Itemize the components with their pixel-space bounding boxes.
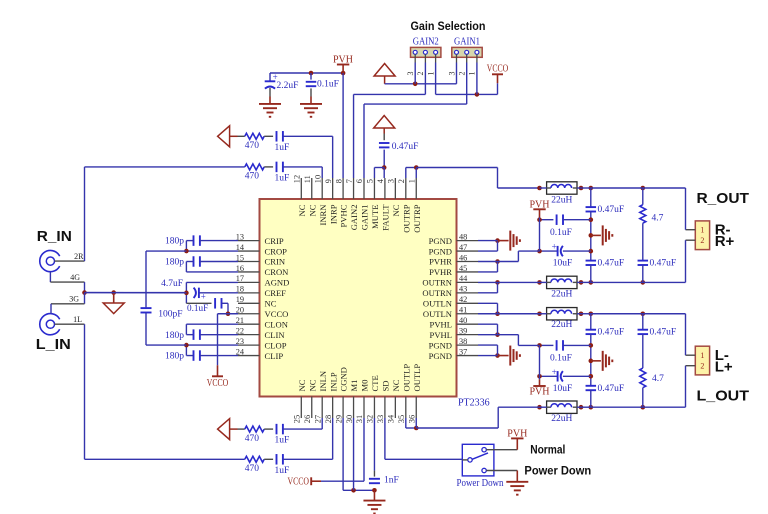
- svg-text:M0: M0: [360, 380, 370, 392]
- svg-text:0.1uF: 0.1uF: [550, 354, 572, 364]
- svg-text:34: 34: [387, 414, 396, 423]
- svg-text:Gain Selection: Gain Selection: [411, 19, 486, 33]
- svg-text:180p: 180p: [165, 237, 184, 247]
- svg-text:CLON: CLON: [265, 319, 289, 329]
- svg-text:39: 39: [459, 326, 467, 335]
- svg-text:28: 28: [324, 415, 333, 423]
- svg-text:47: 47: [459, 243, 467, 252]
- svg-text:L+: L+: [715, 358, 733, 375]
- svg-text:12: 12: [293, 175, 302, 183]
- svg-text:4.7uF: 4.7uF: [161, 279, 183, 289]
- svg-text:OUTLP: OUTLP: [412, 364, 422, 392]
- svg-text:11: 11: [303, 175, 312, 183]
- svg-text:180p: 180p: [165, 331, 184, 341]
- svg-text:OUTLP: OUTLP: [401, 364, 411, 392]
- svg-text:CLIN: CLIN: [265, 330, 286, 340]
- svg-text:PVHC: PVHC: [339, 204, 349, 227]
- svg-text:41: 41: [459, 306, 467, 315]
- svg-text:Power Down: Power Down: [457, 478, 504, 489]
- svg-text:PVH: PVH: [507, 429, 527, 440]
- svg-text:1: 1: [426, 72, 435, 76]
- svg-text:VCCO: VCCO: [265, 309, 289, 319]
- svg-text:+: +: [552, 367, 557, 377]
- svg-text:0.47uF: 0.47uF: [650, 328, 677, 338]
- svg-text:L_OUT: L_OUT: [697, 388, 750, 405]
- svg-text:45: 45: [459, 264, 467, 273]
- svg-text:CRON: CRON: [265, 267, 290, 277]
- svg-text:3: 3: [387, 179, 396, 183]
- svg-text:Normal: Normal: [530, 443, 565, 457]
- svg-text:L_IN: L_IN: [36, 336, 71, 353]
- svg-text:19: 19: [236, 295, 244, 304]
- svg-text:180p: 180p: [165, 352, 184, 362]
- svg-text:CRIN: CRIN: [265, 257, 286, 267]
- svg-text:+: +: [552, 242, 557, 252]
- svg-text:GAIN2: GAIN2: [413, 37, 439, 48]
- svg-text:AGND: AGND: [265, 278, 290, 288]
- svg-text:46: 46: [459, 253, 467, 262]
- svg-text:CROP: CROP: [265, 246, 288, 256]
- svg-text:NC: NC: [297, 204, 307, 216]
- svg-text:NC: NC: [307, 204, 317, 216]
- svg-text:4.7: 4.7: [652, 214, 664, 224]
- svg-text:36: 36: [407, 415, 416, 423]
- svg-text:0.47uF: 0.47uF: [598, 384, 625, 394]
- svg-text:0.47uF: 0.47uF: [650, 259, 677, 269]
- svg-text:NC: NC: [307, 379, 317, 391]
- svg-text:1L: 1L: [73, 315, 82, 324]
- svg-text:NC: NC: [265, 299, 277, 309]
- svg-text:7: 7: [345, 179, 354, 183]
- svg-text:10uF: 10uF: [553, 384, 573, 394]
- svg-text:CGND: CGND: [339, 367, 349, 391]
- svg-text:43: 43: [459, 285, 467, 294]
- svg-text:8: 8: [334, 179, 343, 183]
- svg-text:5: 5: [366, 179, 375, 183]
- svg-text:470: 470: [245, 141, 259, 151]
- svg-text:OUTRP: OUTRP: [401, 204, 411, 232]
- svg-text:GAIN1: GAIN1: [454, 37, 480, 48]
- svg-text:PVH: PVH: [529, 387, 549, 398]
- svg-text:PVHR: PVHR: [429, 257, 452, 267]
- svg-text:CTE: CTE: [370, 375, 380, 391]
- svg-text:1uF: 1uF: [275, 436, 290, 446]
- svg-text:10: 10: [313, 175, 322, 183]
- svg-text:1: 1: [468, 72, 477, 76]
- svg-text:2: 2: [700, 236, 704, 245]
- svg-text:2: 2: [397, 179, 406, 183]
- svg-text:180p: 180p: [165, 258, 184, 268]
- svg-text:OUTLN: OUTLN: [423, 299, 453, 309]
- svg-text:9: 9: [324, 179, 333, 183]
- svg-text:R_OUT: R_OUT: [697, 190, 750, 207]
- svg-text:PVHL: PVHL: [430, 319, 452, 329]
- svg-text:44: 44: [459, 274, 468, 283]
- svg-text:PVHL: PVHL: [430, 330, 452, 340]
- svg-text:NC: NC: [391, 379, 401, 391]
- svg-text:0.1uF: 0.1uF: [550, 228, 572, 238]
- svg-text:1uF: 1uF: [275, 174, 290, 184]
- svg-text:3: 3: [406, 72, 415, 76]
- svg-text:470: 470: [245, 172, 259, 182]
- svg-text:2.2uF: 2.2uF: [277, 81, 299, 91]
- svg-text:1uF: 1uF: [275, 143, 290, 153]
- svg-text:1: 1: [700, 226, 704, 235]
- svg-text:INLN: INLN: [318, 370, 328, 391]
- svg-text:27: 27: [313, 415, 322, 423]
- svg-text:CLOP: CLOP: [265, 340, 287, 350]
- svg-text:R_IN: R_IN: [37, 228, 72, 245]
- svg-text:PGND: PGND: [429, 236, 452, 246]
- svg-text:6: 6: [355, 179, 364, 183]
- svg-text:VCCO: VCCO: [487, 64, 509, 75]
- svg-text:INRN: INRN: [318, 204, 328, 226]
- svg-text:M1: M1: [349, 380, 359, 392]
- svg-text:CRIP: CRIP: [265, 236, 284, 246]
- svg-text:R+: R+: [715, 233, 735, 250]
- svg-text:25: 25: [293, 415, 302, 423]
- svg-text:0.1uF: 0.1uF: [317, 80, 339, 90]
- svg-text:32: 32: [366, 415, 375, 423]
- svg-text:OUTRP: OUTRP: [412, 204, 422, 232]
- svg-text:37: 37: [459, 347, 467, 356]
- svg-text:33: 33: [376, 415, 385, 423]
- svg-text:470: 470: [245, 434, 259, 444]
- svg-text:22uH: 22uH: [551, 320, 572, 330]
- svg-text:PVH: PVH: [529, 200, 549, 211]
- svg-text:PGND: PGND: [429, 246, 452, 256]
- svg-text:INRP: INRP: [328, 204, 338, 224]
- svg-text:NC: NC: [391, 204, 401, 216]
- svg-text:29: 29: [334, 415, 343, 423]
- svg-text:OUTRN: OUTRN: [422, 288, 452, 298]
- svg-text:PT2336: PT2336: [458, 398, 490, 409]
- svg-text:42: 42: [459, 295, 467, 304]
- svg-text:Power Down: Power Down: [524, 464, 591, 478]
- svg-text:GAIN1: GAIN1: [360, 205, 370, 231]
- svg-text:1uF: 1uF: [275, 466, 290, 476]
- svg-text:40: 40: [459, 316, 467, 325]
- svg-text:CREF: CREF: [265, 288, 287, 298]
- svg-text:INLP: INLP: [328, 372, 338, 391]
- svg-text:22uH: 22uH: [551, 196, 572, 206]
- svg-text:1: 1: [407, 179, 416, 183]
- svg-text:PVHR: PVHR: [429, 267, 452, 277]
- svg-text:1: 1: [700, 351, 704, 360]
- svg-text:100pF: 100pF: [158, 310, 182, 320]
- svg-text:3: 3: [447, 72, 456, 76]
- svg-text:PGND: PGND: [429, 351, 452, 361]
- svg-text:2: 2: [700, 362, 704, 371]
- svg-text:26: 26: [303, 415, 312, 423]
- svg-text:OUTRN: OUTRN: [422, 278, 452, 288]
- svg-text:22uH: 22uH: [551, 414, 572, 424]
- svg-text:31: 31: [355, 415, 364, 423]
- svg-text:FAULT: FAULT: [381, 204, 391, 231]
- svg-text:3G: 3G: [69, 295, 79, 304]
- svg-text:470: 470: [245, 464, 259, 474]
- svg-text:1nF: 1nF: [384, 475, 399, 485]
- svg-text:2: 2: [458, 72, 467, 76]
- svg-text:30: 30: [345, 415, 354, 423]
- svg-text:38: 38: [459, 337, 467, 346]
- svg-text:2: 2: [416, 72, 425, 76]
- svg-text:SD: SD: [381, 381, 391, 392]
- svg-text:35: 35: [397, 415, 406, 423]
- svg-text:0.1uF: 0.1uF: [187, 303, 208, 313]
- svg-text:CLIP: CLIP: [265, 351, 284, 361]
- svg-text:48: 48: [459, 232, 467, 241]
- svg-text:0.47uF: 0.47uF: [598, 328, 625, 338]
- svg-text:PGND: PGND: [429, 340, 452, 350]
- svg-text:MUTE: MUTE: [370, 205, 380, 229]
- svg-text:VCCO: VCCO: [207, 378, 229, 389]
- svg-text:0.47uF: 0.47uF: [598, 259, 625, 269]
- svg-text:OUTLN: OUTLN: [423, 309, 453, 319]
- svg-text:2R: 2R: [74, 252, 84, 261]
- svg-text:22uH: 22uH: [551, 289, 572, 299]
- svg-text:GAIN2: GAIN2: [349, 205, 359, 231]
- svg-text:4.7: 4.7: [652, 374, 664, 384]
- svg-text:0.47uF: 0.47uF: [392, 142, 419, 152]
- svg-text:VCCO: VCCO: [288, 477, 310, 488]
- svg-text:0.47uF: 0.47uF: [598, 205, 625, 215]
- svg-text:NC: NC: [297, 379, 307, 391]
- svg-text:4G: 4G: [70, 273, 80, 282]
- svg-text:10uF: 10uF: [553, 259, 573, 269]
